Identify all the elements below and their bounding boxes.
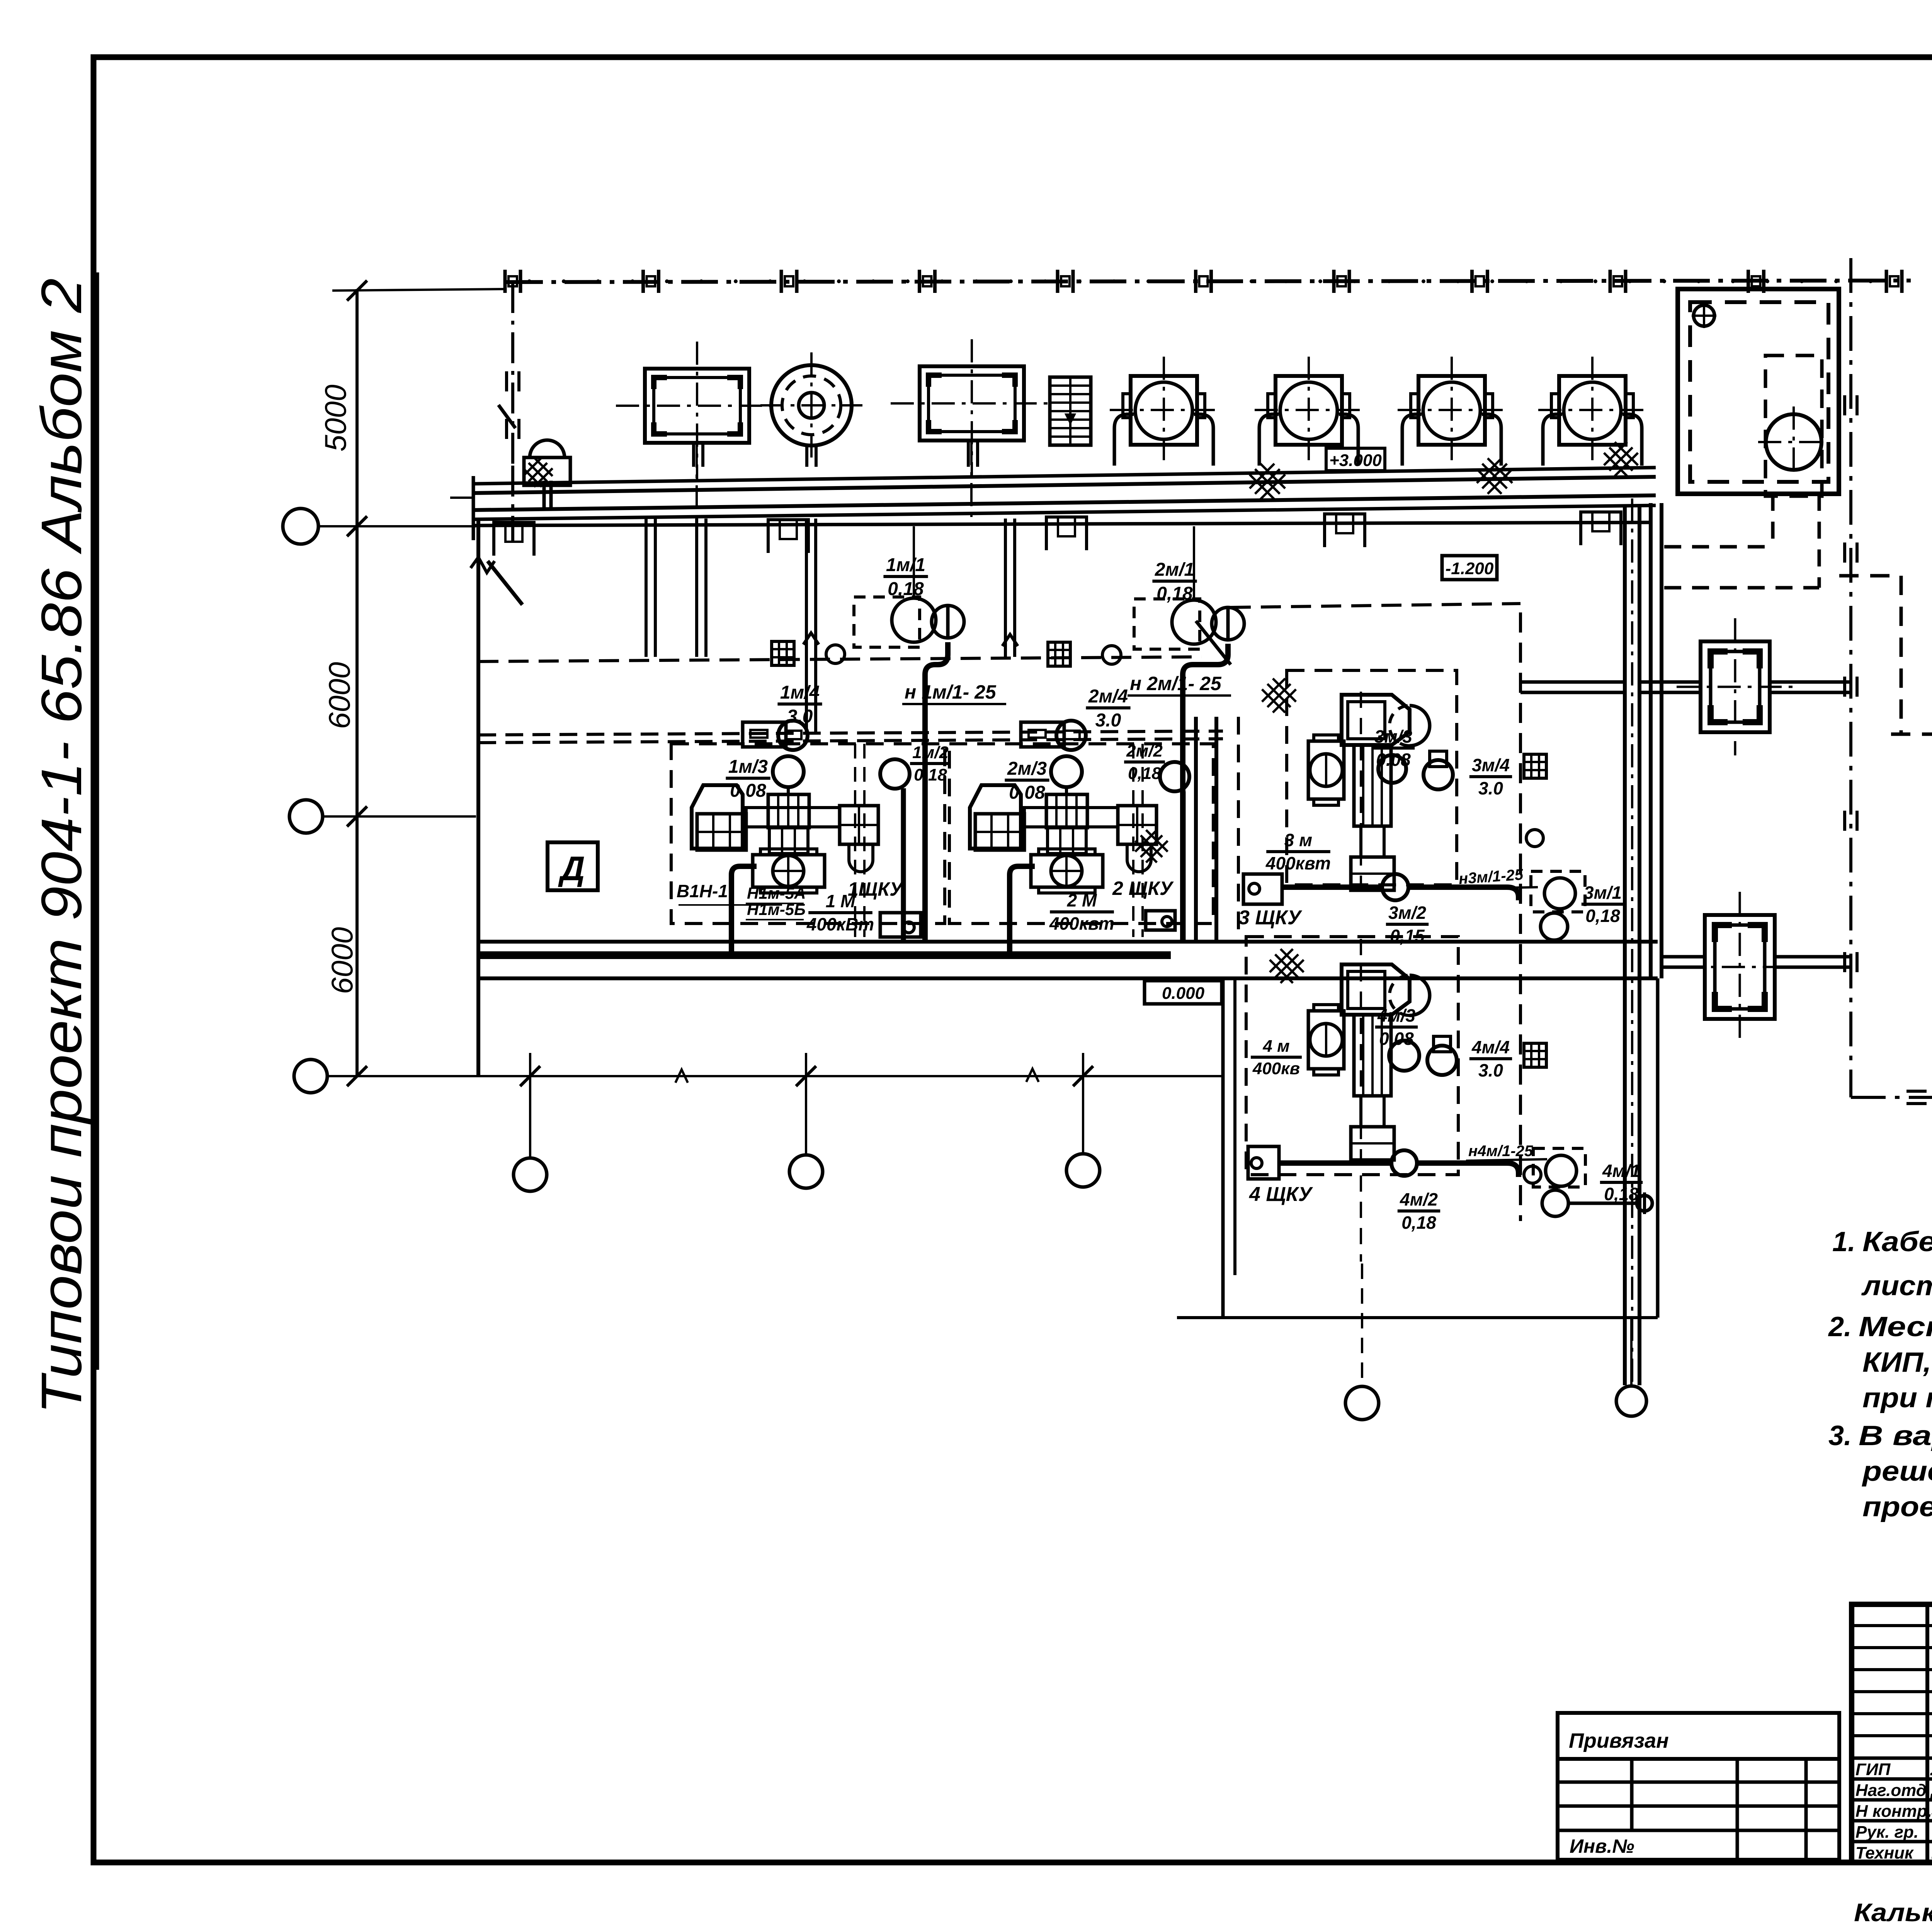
inner dashed cell <box>1765 355 1822 496</box>
boundary tick <box>1843 952 1846 972</box>
wall column stub <box>1325 514 1365 547</box>
pump feed line 2 <box>1193 526 1195 600</box>
bottom wall of machine hall <box>478 940 1658 944</box>
svg-text:Д: Д <box>558 849 585 888</box>
hall top wall line <box>474 522 1651 526</box>
circle 3m/3 <box>1378 755 1406 783</box>
small circle in room <box>1694 305 1714 326</box>
svg-text:5000: 5000 <box>318 384 352 452</box>
svg-text:листы ЭМ - 8 ÷ 11: листы ЭМ - 8 ÷ 11 <box>1861 1270 1932 1301</box>
svg-text:3.: 3. <box>1828 1420 1852 1451</box>
compressor unit 3M <box>1342 695 1410 745</box>
grid column mark <box>503 270 507 293</box>
dashed partition A <box>478 657 1202 662</box>
svg-text:2м/1: 2м/1 <box>1155 560 1194 580</box>
svg-text:3м/2: 3м/2 <box>1388 903 1426 923</box>
wall column stub <box>494 522 534 556</box>
wall column stub <box>1046 517 1087 550</box>
svg-text:н4м/1-25: н4м/1-25 <box>1468 1143 1533 1160</box>
thin row line <box>1852 1712 1932 1715</box>
svg-text:1м/4: 1м/4 <box>780 682 820 703</box>
thin row line <box>1852 1646 1932 1649</box>
ladder box 4 <box>1524 1043 1546 1067</box>
disconnect switch slash <box>488 561 522 605</box>
svg-text:4м/1: 4м/1 <box>1602 1161 1640 1181</box>
level mark 0.000 box <box>1145 981 1222 1004</box>
pipe to column 1 <box>1520 680 1625 684</box>
svg-text:н 2м/1- 25: н 2м/1- 25 <box>1130 673 1222 694</box>
hatched column K1 <box>1701 641 1770 732</box>
roof unit rect 2 <box>920 366 1024 440</box>
grid column mark <box>1747 270 1750 293</box>
signature row line <box>1852 1757 1932 1760</box>
svg-text:0,18: 0,18 <box>888 579 924 599</box>
signature row line <box>1852 1777 1932 1781</box>
ladder box 2 <box>1048 642 1070 666</box>
svg-text:3 м: 3 м <box>1284 830 1312 850</box>
circle 4m/3 <box>1389 1041 1419 1071</box>
svg-text:0,18: 0,18 <box>1156 583 1193 604</box>
svg-text:0.08: 0.08 <box>1009 782 1045 803</box>
svg-text:2 М: 2 М <box>1067 890 1097 910</box>
signature row line <box>1852 1819 1932 1823</box>
grid bubble row D <box>294 1060 327 1093</box>
fan unit 2 <box>1276 376 1342 445</box>
svg-text:0.08: 0.08 <box>1379 1029 1414 1049</box>
left wall <box>476 519 480 1076</box>
grid column mark <box>1056 270 1060 293</box>
svg-text:Н контр.: Н контр. <box>1855 1802 1932 1821</box>
pump 3m/1 <box>1531 871 1585 912</box>
svg-text:3м/4: 3м/4 <box>1472 755 1510 775</box>
room 4M center channel <box>1360 939 1362 1262</box>
svg-text:2м/2: 2м/2 <box>1126 742 1163 760</box>
svg-text:решения основного варианта: решения основного варианта типового <box>1862 1456 1932 1487</box>
vertical grid line with marks <box>511 282 514 466</box>
vent unit with dome <box>524 457 570 485</box>
pipe to tray <box>1568 1202 1638 1205</box>
left dimension line <box>355 289 359 1076</box>
axis letter D box <box>548 842 598 890</box>
big circle in room <box>1766 414 1821 470</box>
bottom-right grid bubbles <box>1361 1264 1363 1386</box>
svg-text:3.0: 3.0 <box>1478 778 1503 798</box>
pump 2m/1 <box>1134 599 1200 649</box>
signature row line <box>1852 1798 1932 1802</box>
wall column stub <box>1581 512 1621 545</box>
heavy cable 4SCHKU <box>1279 1160 1391 1166</box>
box 2SCHKU <box>1146 911 1175 930</box>
dashed utility line right of room <box>1839 574 1901 578</box>
roof unit rect 1 <box>645 369 749 443</box>
pump feed line 1 <box>913 526 915 598</box>
svg-text:проекта.: проекта. <box>1862 1492 1932 1522</box>
boundary tick bottom <box>1906 1090 1927 1093</box>
small valve 2 <box>1102 646 1121 664</box>
pipe rack band <box>473 468 1656 484</box>
bay dashed boundary <box>1237 717 1240 937</box>
circle 3m/4 <box>1423 760 1453 789</box>
svg-text:0,18: 0,18 <box>914 765 947 784</box>
circle 4m/4 <box>1427 1046 1457 1075</box>
bottom grid bubble <box>514 1158 547 1191</box>
+3.000 level mark <box>1326 448 1385 471</box>
wall column stub <box>768 520 808 553</box>
box 1SCHKU <box>880 913 921 937</box>
svg-text:3м/3: 3м/3 <box>1374 726 1412 747</box>
svg-text:1м/1: 1м/1 <box>886 555 925 575</box>
svg-text:2 ЩКУ: 2 ЩКУ <box>1112 878 1174 899</box>
grid column mark <box>1332 270 1336 293</box>
svg-text:Кабельный журнал и разрезы: Кабельный журнал и разрезы смотреть <box>1862 1226 1932 1257</box>
grid column mark <box>1885 270 1888 293</box>
bubble annex left <box>1345 1386 1379 1420</box>
svg-text:+3.000: +3.000 <box>1329 451 1382 470</box>
heavy riser 2 <box>1181 791 1186 942</box>
heavy riser 1 <box>901 788 906 942</box>
grid bubble row C <box>289 800 323 833</box>
box 3SCHKU <box>1243 874 1282 904</box>
privyazan table <box>1558 1713 1839 1860</box>
corridor wall b <box>1214 717 1218 942</box>
svg-text:1м/3: 1м/3 <box>728 757 768 777</box>
svg-text:2м/4: 2м/4 <box>1088 686 1128 707</box>
fan unit 3 <box>1418 376 1485 445</box>
svg-text:4м/4: 4м/4 <box>1471 1037 1510 1057</box>
svg-text:Рук. гр.: Рук. гр. <box>1855 1823 1918 1842</box>
bottom grid bubble <box>1066 1154 1100 1187</box>
lower annex walls <box>1221 978 1225 1318</box>
svg-text:3 ЩКУ: 3 ЩКУ <box>1238 906 1303 929</box>
hatched column K2 <box>1705 915 1775 1019</box>
thin row line <box>1852 1668 1932 1671</box>
svg-text:3.0: 3.0 <box>1095 710 1121 731</box>
pipe to column 2 <box>1662 955 1705 959</box>
stairs <box>1050 377 1091 445</box>
bubble annex right <box>1616 1386 1646 1416</box>
svg-text:0,18: 0,18 <box>1585 906 1620 926</box>
boundary tick <box>1843 543 1846 563</box>
small valve <box>826 645 845 663</box>
svg-text:2.: 2. <box>1828 1311 1852 1342</box>
svg-text:Наг.отд: Наг.отд <box>1855 1781 1927 1800</box>
svg-text:Место установки камер КРУ,: Место установки камер КРУ, помещения <box>1859 1311 1932 1342</box>
outer dash-dot boundary <box>1849 258 1852 1097</box>
bottom grid bubble <box>789 1155 823 1188</box>
pump 1m/1 <box>854 597 920 647</box>
heavy cable from pump 2m/1 <box>1183 644 1228 735</box>
grid column mark <box>641 270 645 293</box>
title block left columns <box>1925 1604 1929 1862</box>
svg-text:0.08: 0.08 <box>730 781 766 801</box>
svg-text:ГИП: ГИП <box>1855 1760 1891 1779</box>
svg-text:1.: 1. <box>1832 1226 1855 1257</box>
pipe chevron 2 <box>1002 634 1018 646</box>
svg-text:400кВт: 400кВт <box>806 914 874 934</box>
right wall of hall <box>1649 503 1653 978</box>
cable tray vertical <box>1623 506 1627 1385</box>
pump 4m/1 <box>1533 1148 1585 1187</box>
svg-text:400квт: 400квт <box>1265 853 1331 873</box>
svg-text:КИП, шкафов распределительных: КИП, шкафов распределительных решается <box>1862 1347 1932 1378</box>
svg-text:3.0: 3.0 <box>787 706 813 727</box>
grid column mark <box>780 270 783 293</box>
svg-text:Техник: Техник <box>1855 1844 1914 1862</box>
thin row line <box>1852 1690 1932 1693</box>
svg-text:при привязке.: при привязке. <box>1862 1383 1932 1413</box>
band left end flange <box>543 481 546 509</box>
dashed duct from room down-left <box>1771 494 1775 547</box>
bubble leader <box>805 1053 807 1155</box>
grid column mark <box>1470 270 1474 293</box>
svg-text:4м/2: 4м/2 <box>1400 1189 1438 1209</box>
ladder box 3 <box>1524 754 1546 778</box>
svg-text:-1.200: -1.200 <box>1446 559 1494 578</box>
boundary tick <box>1843 395 1846 415</box>
svg-text:0,18: 0,18 <box>1128 764 1161 783</box>
bottom dimension line <box>327 1075 1223 1077</box>
boundary tick <box>1843 677 1846 697</box>
svg-text:4 ЩКУ: 4 ЩКУ <box>1249 1183 1313 1206</box>
machine room 4M dashed <box>1246 937 1458 1175</box>
roof unit big circle <box>771 365 852 446</box>
heavy cable 3SCHKU <box>1282 884 1383 890</box>
svg-text:В вариантах для блокирования: В вариантах для блокирования приняты <box>1859 1420 1932 1451</box>
grid column mark <box>1194 270 1197 293</box>
svg-text:4м/3: 4м/3 <box>1377 1005 1415 1026</box>
top-right room (KRU) <box>1678 289 1839 494</box>
svg-text:2м/3: 2м/3 <box>1007 759 1047 779</box>
svg-text:6000: 6000 <box>322 662 356 729</box>
fan unit 4 <box>1559 376 1626 445</box>
svg-text:0,18: 0,18 <box>1604 1184 1639 1204</box>
machine room 2M dashed <box>949 744 1213 923</box>
bubble leader <box>529 1053 531 1158</box>
corridor wall a <box>1194 717 1198 942</box>
svg-text:6000: 6000 <box>325 927 359 994</box>
grid column mark <box>918 270 921 293</box>
svg-text:В1Н-1: В1Н-1 <box>677 881 728 901</box>
level mark -1.200 box <box>1442 556 1497 580</box>
circle 2m/2 <box>1160 762 1189 791</box>
svg-text:0.000: 0.000 <box>1162 984 1205 1003</box>
boundary tick <box>1843 811 1846 831</box>
top column grid dash-dot line <box>506 281 1911 282</box>
dashed partition B (KRU bay) <box>1231 604 1520 607</box>
svg-text:400кв: 400кв <box>1252 1059 1300 1078</box>
svg-text:1м/2: 1м/2 <box>912 743 949 762</box>
svg-text:Кальку сверил Горстка Копир: Кальку сверил Горстка Копировал Лещинина <box>1854 1898 1932 1927</box>
svg-text:н 1м/1- 25: н 1м/1- 25 <box>905 681 997 703</box>
svg-text:1ЩКУ: 1ЩКУ <box>848 878 904 900</box>
fan unit 1 <box>1131 376 1197 445</box>
heavy cable along bottom wall <box>479 951 1171 959</box>
corridor double dashed line <box>478 731 1223 735</box>
heavy cable from pump 1m/1 <box>925 642 948 735</box>
svg-text:3м/1: 3м/1 <box>1584 883 1622 903</box>
compressor unit 1M <box>743 722 786 747</box>
box 4SCHKU <box>1248 1146 1279 1179</box>
heavy cable from motor 1M to wall <box>731 866 757 956</box>
svg-text:Привязан: Привязан <box>1569 1729 1669 1752</box>
svg-text:Н1м-5А: Н1м-5А <box>747 884 806 902</box>
signature row line <box>1852 1840 1932 1844</box>
diagonal ramp edge <box>1196 621 1231 665</box>
thin row line <box>1852 1624 1932 1627</box>
compressor unit 2M <box>1021 722 1064 747</box>
room 3M center channel <box>1360 692 1362 885</box>
svg-text:0,15: 0,15 <box>1390 926 1425 946</box>
title block outer <box>1852 1604 1932 1862</box>
switch diagonal upper <box>498 405 515 428</box>
svg-text:0,18: 0,18 <box>1401 1213 1436 1233</box>
machine room 1M dashed <box>671 744 945 923</box>
compressor unit 4M <box>1342 964 1410 1015</box>
svg-text:4 м: 4 м <box>1262 1037 1289 1056</box>
ladder box 1 <box>772 641 794 665</box>
grid bubble row B <box>283 509 318 544</box>
circle 1m/2 <box>880 759 910 789</box>
thin row line <box>1852 1734 1932 1737</box>
bubble leader <box>1082 1053 1084 1154</box>
heavy cable from motor 2M to wall <box>1010 866 1035 956</box>
svg-text:3.0: 3.0 <box>1478 1060 1503 1080</box>
svg-text:Инв.№: Инв.№ <box>1570 1835 1634 1857</box>
svg-text:Типовои проект 904-1- 65.86: Типовои проект 904-1- 65.86 Альбом 2 <box>30 278 94 1414</box>
grid column mark <box>1609 270 1612 293</box>
pipe chevron <box>803 633 819 645</box>
machine room 3M dashed <box>1287 670 1457 885</box>
svg-text:400квт: 400квт <box>1049 913 1114 934</box>
